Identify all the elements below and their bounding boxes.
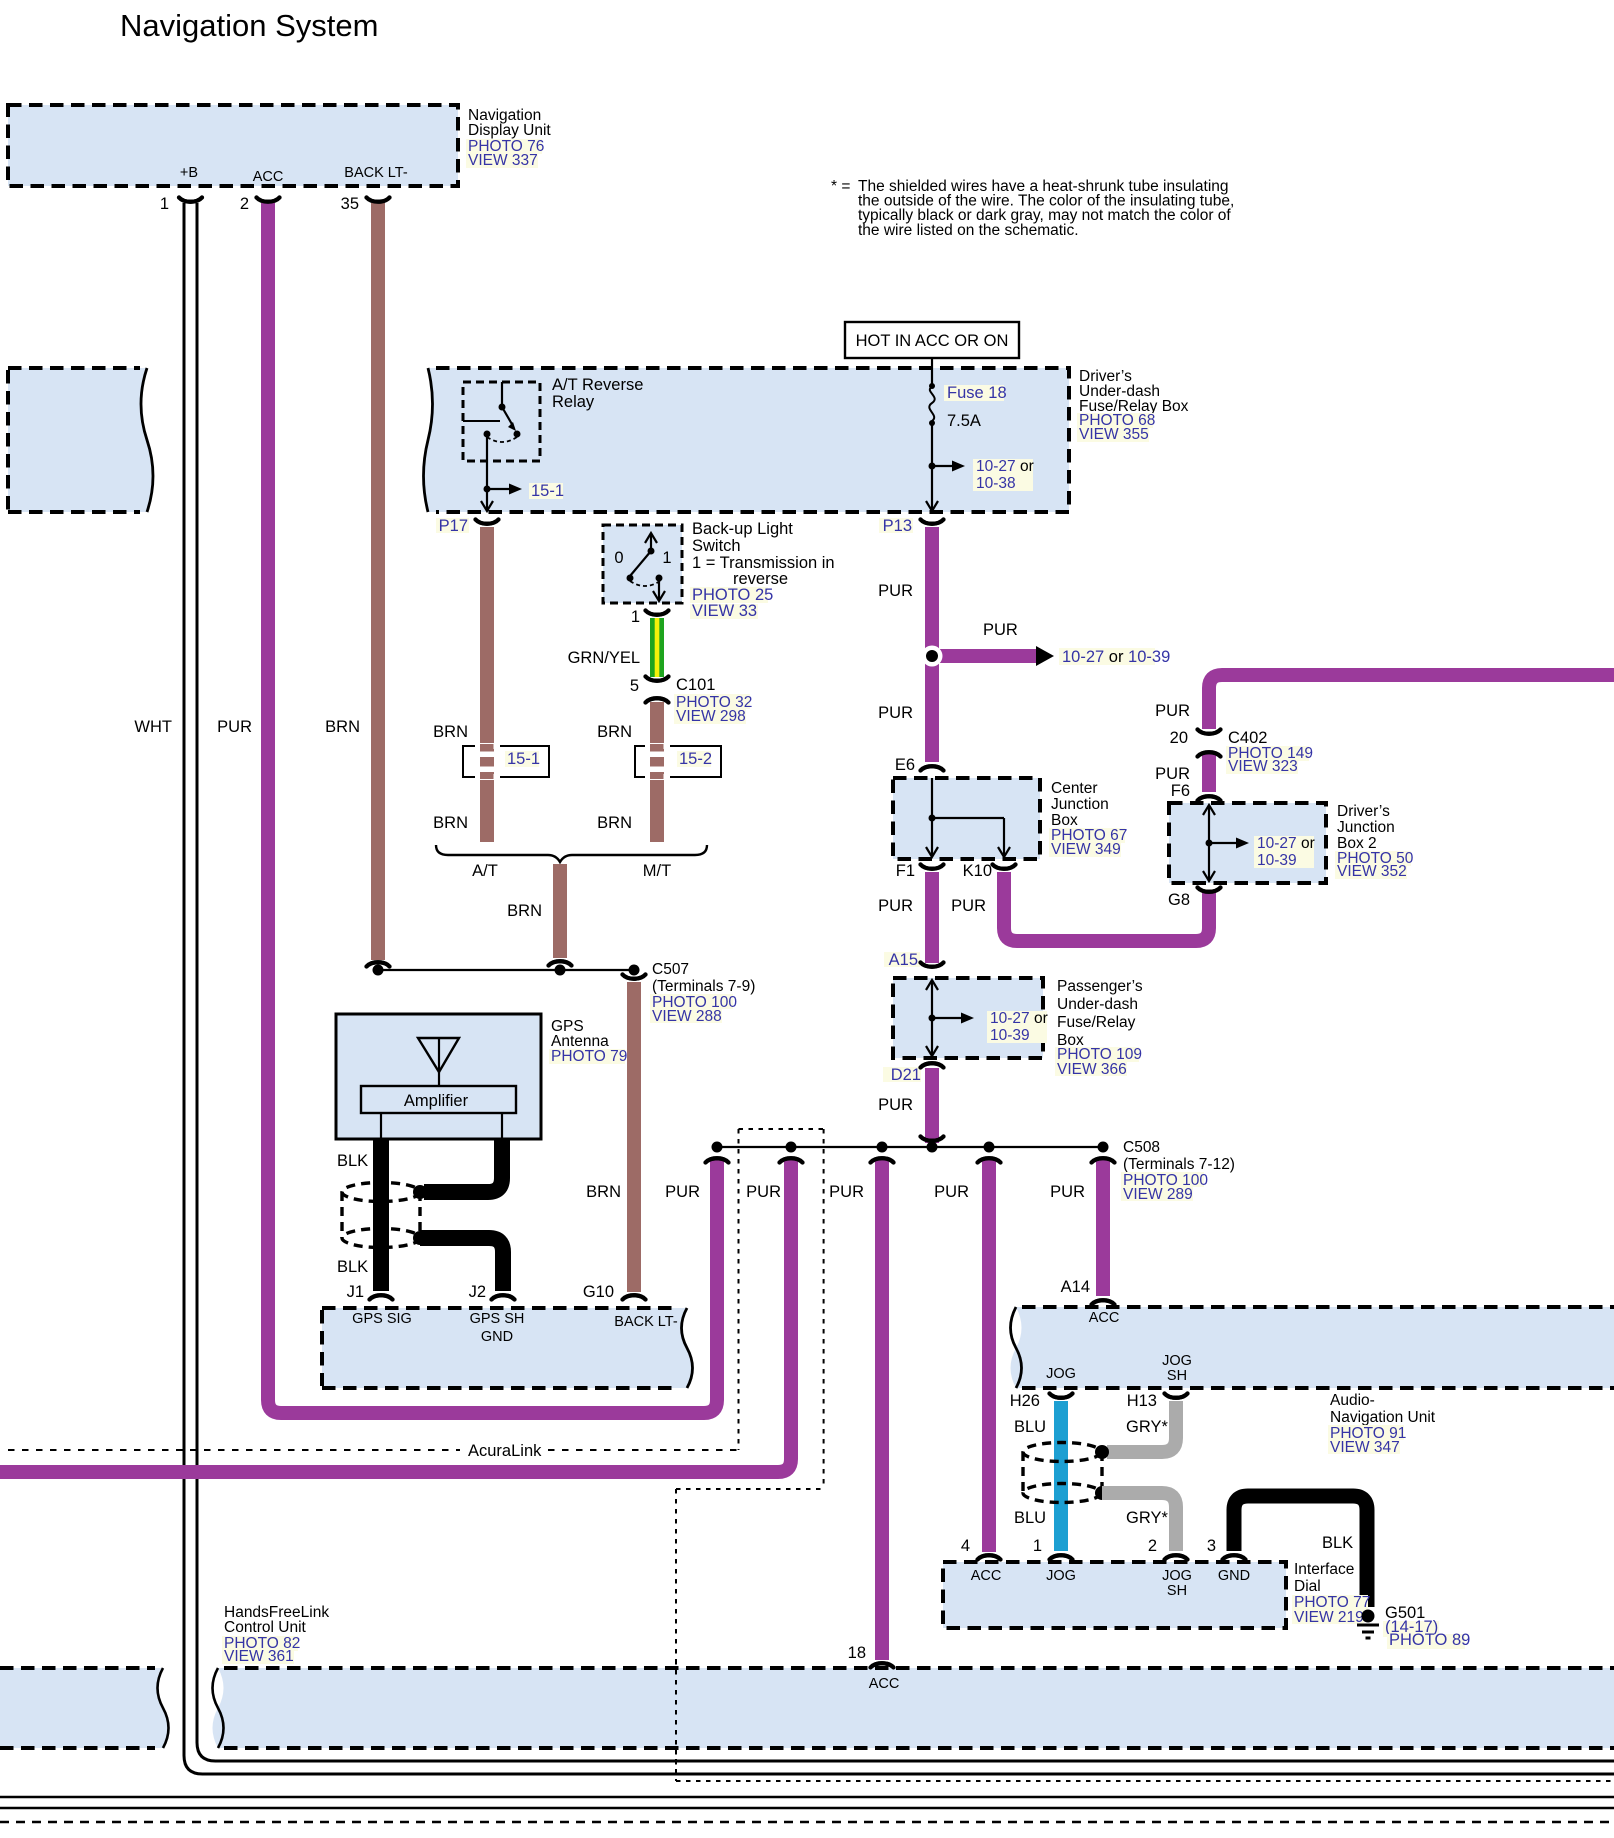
- pin F1: [896, 862, 944, 880]
- svg-text:SH: SH: [1167, 1368, 1187, 1384]
- svg-text:GPS SH: GPS SH: [470, 1311, 525, 1327]
- amplifier output stubs: [380, 1113, 382, 1139]
- svg-text:PUR: PUR: [1155, 765, 1190, 783]
- svg-text:M/T: M/T: [643, 862, 671, 880]
- box: Audio-Navigation Unit: [1011, 1307, 1614, 1388]
- shield cylinder (GPS coax): [342, 1183, 420, 1248]
- node shield top: [413, 1185, 427, 1199]
- svg-text:3: 3: [1207, 1537, 1216, 1555]
- svg-text:Dial: Dial: [1294, 1578, 1321, 1595]
- svg-text:ACC: ACC: [869, 1676, 900, 1692]
- wire PUR bus to pin4 ACC: [982, 1160, 996, 1552]
- wire BLK shield to J2: [420, 1238, 503, 1291]
- wire PUR ACC pin2 to junction bus: [268, 203, 717, 1413]
- svg-text:Navigation System: Navigation System: [120, 8, 378, 43]
- svg-text:JOG: JOG: [1046, 1366, 1076, 1382]
- node shield2 top: [1095, 1445, 1109, 1459]
- svg-text:HOT IN ACC OR ON: HOT IN ACC OR ON: [856, 332, 1009, 350]
- svg-text:J2: J2: [469, 1283, 486, 1301]
- svg-text:G8: G8: [1168, 891, 1190, 909]
- svg-text:Junction: Junction: [1051, 796, 1109, 813]
- brace combining A/T and M/T wires: [436, 845, 707, 880]
- svg-text:VIEW 289: VIEW 289: [1123, 1186, 1193, 1203]
- pin E6: [895, 756, 944, 774]
- svg-text:Back-up Light: Back-up Light: [692, 520, 793, 538]
- svg-text:VIEW 352: VIEW 352: [1337, 863, 1407, 880]
- ground G501: [1357, 1604, 1470, 1649]
- svg-text:15-1: 15-1: [531, 482, 564, 500]
- node bus x989: [984, 1142, 995, 1153]
- pin 1 of back-up switch: [631, 608, 669, 626]
- svg-text:PUR: PUR: [878, 1096, 913, 1114]
- svg-text:Display Unit: Display Unit: [468, 122, 551, 139]
- svg-text:1: 1: [662, 549, 671, 567]
- svg-text:VIEW 347: VIEW 347: [1330, 1439, 1400, 1456]
- pin P13: [879, 517, 944, 535]
- box: HandsFreeLink Control Unit (bottom strip): [213, 1668, 1614, 1748]
- wire PUR K10 to G8 (elbow): [1004, 872, 1209, 941]
- svg-text:C508: C508: [1123, 1139, 1160, 1156]
- connector C402 pin 20: [1170, 729, 1313, 775]
- box: Navigation Display Unit: [8, 105, 551, 186]
- svg-text:PUR: PUR: [878, 582, 913, 600]
- pin H26: [1010, 1392, 1073, 1410]
- svg-text:GND: GND: [481, 1329, 513, 1345]
- svg-text:10-27 or: 10-27 or: [990, 1010, 1048, 1027]
- node bus x882: [877, 1142, 888, 1153]
- label: Audio-Navigation Unit: [1328, 1392, 1436, 1456]
- svg-text:(Terminals 7-9): (Terminals 7-9): [652, 978, 755, 995]
- svg-text:Relay: Relay: [552, 393, 595, 411]
- pin A15: [884, 951, 944, 969]
- dotted boundary over bottom box (x=676): [675, 1660, 677, 1781]
- svg-text:VIEW 366: VIEW 366: [1057, 1061, 1127, 1078]
- amplifier: [361, 1086, 516, 1113]
- branch wire PUR to 10-27 or 10-39: [932, 621, 1170, 666]
- svg-text:PUR: PUR: [1155, 702, 1190, 720]
- connector cup D21 wire at bus: [921, 1137, 944, 1141]
- svg-text:A/T Reverse: A/T Reverse: [552, 376, 643, 394]
- pin H13: [1127, 1392, 1188, 1410]
- svg-text:PUR: PUR: [878, 897, 913, 915]
- svg-text:1: 1: [1033, 1537, 1042, 1555]
- svg-text:Amplifier: Amplifier: [404, 1092, 469, 1110]
- shield cylinder (jog shield): [1023, 1443, 1102, 1503]
- wire BLK amplifier to shield: [424, 1139, 502, 1192]
- svg-text:4: 4: [961, 1537, 970, 1555]
- svg-text:BRN: BRN: [507, 902, 542, 920]
- box: Interface Dial: [943, 1561, 1370, 1628]
- svg-text:PUR: PUR: [217, 718, 252, 736]
- wire PUR F1 to A15: [925, 872, 939, 963]
- svg-text:BRN: BRN: [433, 723, 468, 741]
- svg-text:5: 5: [630, 677, 639, 695]
- wire relay contact to P17 with 15-1 branch: [481, 434, 564, 511]
- svg-text:Fuse 18: Fuse 18: [947, 384, 1007, 402]
- connector C101 pin 5: [630, 676, 753, 725]
- svg-text:Driver’s: Driver’s: [1337, 803, 1390, 820]
- svg-text:BLK: BLK: [1322, 1534, 1353, 1552]
- connector cup BACK LT- wire at line: [367, 962, 390, 966]
- wire PUR P13 to E6: [925, 527, 939, 762]
- wire GRY H13 to shield top: [1107, 1401, 1176, 1452]
- note: shielded wires asterisk note: [831, 178, 1234, 239]
- svg-text:Interface: Interface: [1294, 1561, 1354, 1578]
- wire PUR D21 to bus: [925, 1068, 939, 1143]
- svg-text:GRN/YEL: GRN/YEL: [568, 649, 640, 667]
- pin 2 (ACC): [240, 195, 280, 213]
- svg-text:GPS SIG: GPS SIG: [352, 1311, 412, 1327]
- svg-text:PUR: PUR: [878, 704, 913, 722]
- svg-text:BRN: BRN: [325, 718, 360, 736]
- node bus x791: [786, 1142, 797, 1153]
- node bus x717: [712, 1142, 723, 1153]
- label box: HOT IN ACC OR ON: [845, 322, 1019, 358]
- svg-text:VIEW 288: VIEW 288: [652, 1008, 722, 1025]
- svg-text:BACK LT-: BACK LT-: [344, 165, 408, 181]
- svg-text:JOG: JOG: [1046, 1568, 1076, 1584]
- svg-text:10-38: 10-38: [976, 475, 1016, 492]
- wire BRN C507 to G10: [627, 982, 641, 1292]
- wire BRN from brace to junction line: [507, 864, 571, 966]
- connector C507 (Terminals 7-9): [623, 961, 756, 1025]
- wire PUR C402 to F6: [1202, 754, 1216, 792]
- svg-text:2: 2: [240, 195, 249, 213]
- box: Driver's Junction Box 2: [1169, 803, 1414, 883]
- svg-text:10-27 or: 10-27 or: [976, 458, 1034, 475]
- box: navigation unit connector (GPS SIG / GPS SH GND / BACK LT-): [322, 1308, 693, 1388]
- svg-text:2: 2: [1148, 1537, 1157, 1555]
- node C507: [629, 965, 640, 976]
- junction dot on PUR wire: [922, 646, 943, 667]
- svg-text:BLU: BLU: [1014, 1509, 1046, 1527]
- svg-text:SH: SH: [1167, 1583, 1187, 1599]
- svg-text:10-27 or: 10-27 or: [1257, 835, 1315, 852]
- svg-text:BRN: BRN: [433, 814, 468, 832]
- wire BRN M/T from C101: [650, 702, 664, 842]
- svg-text:BRN: BRN: [586, 1183, 621, 1201]
- svg-text:G10: G10: [583, 1283, 614, 1301]
- svg-text:7.5A: 7.5A: [947, 412, 981, 430]
- svg-text:PHOTO 79: PHOTO 79: [551, 1048, 627, 1065]
- svg-text:GND: GND: [1218, 1568, 1250, 1584]
- wire PUR main bus to page right: [1209, 675, 1614, 729]
- svg-text:18: 18: [848, 1644, 866, 1662]
- node on line (pin35 wire): [373, 965, 384, 976]
- dashed bottom rail: [0, 1821, 1614, 1824]
- svg-text:C507: C507: [652, 961, 689, 978]
- svg-text:PUR: PUR: [746, 1183, 781, 1201]
- svg-text:PUR: PUR: [665, 1183, 700, 1201]
- node shield bottom: [413, 1231, 427, 1245]
- wire double line bottom rail: [0, 1797, 1614, 1808]
- svg-text:WHT: WHT: [134, 718, 172, 736]
- box: Driver's Under-dash Fuse/Relay Box: [424, 368, 1189, 512]
- label: HandsFreeLink Control Unit: [222, 1604, 329, 1665]
- svg-text:VIEW 219: VIEW 219: [1294, 1609, 1364, 1626]
- svg-text:Passenger’s: Passenger’s: [1057, 978, 1143, 995]
- svg-text:A14: A14: [1061, 1278, 1090, 1296]
- svg-text:J1: J1: [347, 1283, 364, 1301]
- svg-text:Control Unit: Control Unit: [224, 1619, 307, 1636]
- pin F6: [1171, 782, 1221, 801]
- junction bus line C508: [717, 1146, 1103, 1148]
- pin J2: [469, 1283, 515, 1301]
- svg-text:Navigation Unit: Navigation Unit: [1330, 1409, 1436, 1426]
- wire fuse to P13 with 10-27/10-38 branch: [926, 423, 1034, 511]
- connector C508 (Terminals 7-12): [1121, 1139, 1235, 1203]
- pin 1 (+B): [160, 195, 202, 213]
- svg-text:BACK LT-: BACK LT-: [614, 1314, 678, 1330]
- svg-text:P17: P17: [439, 517, 468, 535]
- antenna symbol: [418, 1038, 459, 1086]
- svg-text:A15: A15: [889, 951, 918, 969]
- svg-text:35: 35: [341, 195, 359, 213]
- svg-text:10-39: 10-39: [990, 1027, 1030, 1044]
- node on line (brace wire): [555, 965, 566, 976]
- svg-text:ACC: ACC: [1089, 1310, 1120, 1326]
- svg-text:10-27 or 10-39: 10-27 or 10-39: [1062, 648, 1170, 666]
- svg-text:1: 1: [160, 195, 169, 213]
- relay: A/T Reverse Relay: [463, 376, 643, 461]
- svg-text:BRN: BRN: [597, 814, 632, 832]
- svg-text:1: 1: [631, 608, 640, 626]
- wire PUR bus to A14: [1096, 1160, 1110, 1296]
- svg-text:VIEW 361: VIEW 361: [224, 1648, 294, 1665]
- svg-text:H13: H13: [1127, 1392, 1157, 1410]
- svg-text:PUR: PUR: [934, 1183, 969, 1201]
- pin K10: [963, 862, 1016, 880]
- svg-text:Junction: Junction: [1337, 819, 1395, 836]
- svg-text:BRN: BRN: [597, 723, 632, 741]
- node bus x932 (D21 wire): [927, 1142, 938, 1153]
- svg-text:+B: +B: [180, 165, 198, 181]
- svg-text:VIEW 337: VIEW 337: [468, 152, 538, 169]
- svg-text:PUR: PUR: [951, 897, 986, 915]
- svg-text:F1: F1: [896, 862, 915, 880]
- svg-text:PUR: PUR: [983, 621, 1018, 639]
- pin D21: [883, 1063, 944, 1084]
- fuse Fuse 18 7.5A: [929, 368, 1007, 430]
- svg-text:VIEW 33: VIEW 33: [692, 602, 757, 620]
- svg-text:15-2: 15-2: [679, 750, 712, 768]
- inline connector 15-1: [463, 743, 549, 780]
- svg-text:K10: K10: [963, 862, 992, 880]
- pin J1: [347, 1283, 393, 1301]
- pin 35 (BACK LT-): [341, 195, 390, 213]
- svg-text:F6: F6: [1171, 782, 1190, 800]
- pin G8: [1168, 888, 1221, 910]
- svg-text:ACC: ACC: [971, 1568, 1002, 1584]
- svg-text:C101: C101: [676, 676, 715, 694]
- wire PUR bus to pin18 ACC: [875, 1160, 889, 1660]
- box: Center Junction Box: [893, 778, 1127, 859]
- svg-text:PHOTO 89: PHOTO 89: [1389, 1631, 1470, 1649]
- svg-text:GRY*: GRY*: [1126, 1418, 1168, 1436]
- box: Passenger's Under-dash Fuse/Relay Box: [893, 978, 1143, 1078]
- svg-text:20: 20: [1170, 729, 1188, 747]
- wire BLK pin3 to G501: [1234, 1496, 1367, 1607]
- wire GRY shield bottom to pin2: [1102, 1493, 1176, 1551]
- svg-text:* =: * =: [831, 178, 850, 195]
- svg-text:JOG: JOG: [1162, 1353, 1192, 1369]
- wire BLU H26 to pin1: [1054, 1401, 1068, 1551]
- pin A14: [1061, 1278, 1115, 1305]
- svg-text:10-39: 10-39: [1257, 852, 1297, 869]
- svg-text:VIEW 355: VIEW 355: [1079, 426, 1149, 443]
- svg-text:0: 0: [614, 549, 623, 567]
- svg-text:H26: H26: [1010, 1392, 1040, 1410]
- connector cups redrawn on top: [179, 198, 1246, 1668]
- pin 4 (ACC): [961, 1537, 1001, 1560]
- svg-text:Switch: Switch: [692, 537, 741, 555]
- svg-text:Fuse/Relay: Fuse/Relay: [1057, 1014, 1136, 1031]
- junction line for BACK LT-: [378, 969, 634, 971]
- svg-text:15-1: 15-1: [507, 750, 540, 768]
- svg-text:VIEW 298: VIEW 298: [676, 708, 746, 725]
- svg-text:VIEW 349: VIEW 349: [1051, 841, 1121, 858]
- svg-text:BLK: BLK: [337, 1152, 368, 1170]
- wire BLK GPS signal (J1): [373, 1139, 389, 1291]
- box fragment: left part of under-dash box (torn edge): [8, 368, 153, 512]
- box fragment: bottom-left (torn both sides): [0, 1668, 169, 1748]
- svg-text:Center: Center: [1051, 780, 1098, 797]
- svg-text:Audio-: Audio-: [1330, 1392, 1375, 1409]
- svg-text:E6: E6: [895, 756, 915, 774]
- svg-text:BLK: BLK: [337, 1258, 368, 1276]
- svg-text:PUR: PUR: [829, 1183, 864, 1201]
- svg-text:the wire listed on the schemat: the wire listed on the schematic.: [858, 222, 1079, 239]
- node shield2 bottom: [1095, 1486, 1109, 1500]
- wire PUR bus to left page edge (elbow): [0, 1160, 791, 1472]
- inline connector 15-2: [635, 743, 721, 780]
- svg-text:ACC: ACC: [253, 169, 284, 185]
- svg-text:PUR: PUR: [1050, 1183, 1085, 1201]
- wire WHT +B (double line): [184, 203, 1614, 1774]
- pin 2 (JOG SH): [1148, 1537, 1188, 1560]
- wire from HOT box to fuse box: [931, 358, 933, 368]
- svg-text:GRY*: GRY*: [1126, 1509, 1168, 1527]
- svg-text:P13: P13: [883, 517, 912, 535]
- pin 1 (JOG): [1033, 1537, 1073, 1560]
- pin 18 (ACC bottom box): [848, 1644, 894, 1668]
- dashed boundary AcuraLink region: [8, 1129, 1614, 1781]
- box: GPS Antenna: [336, 1014, 627, 1139]
- pin P17: [436, 517, 499, 535]
- svg-text:Under-dash: Under-dash: [1057, 996, 1138, 1013]
- wire GRN/YEL: [650, 618, 664, 677]
- svg-text:VIEW 323: VIEW 323: [1228, 758, 1298, 775]
- switch: Back-up Light Switch: [603, 520, 835, 620]
- svg-text:D21: D21: [891, 1066, 921, 1084]
- svg-text:A/T: A/T: [472, 862, 498, 880]
- svg-text:AcuraLink: AcuraLink: [468, 1442, 542, 1460]
- svg-text:(Terminals 7-12): (Terminals 7-12): [1123, 1156, 1235, 1173]
- svg-text:JOG: JOG: [1162, 1568, 1192, 1584]
- svg-text:BLU: BLU: [1014, 1418, 1046, 1436]
- wire BRN BACK LT- pin35 to junction line: [371, 203, 385, 960]
- wire BRN A/T from P17: [480, 527, 494, 842]
- node bus C508 x1103: [1098, 1142, 1109, 1153]
- pin G10: [583, 1283, 646, 1301]
- pin 3 (GND): [1207, 1537, 1246, 1560]
